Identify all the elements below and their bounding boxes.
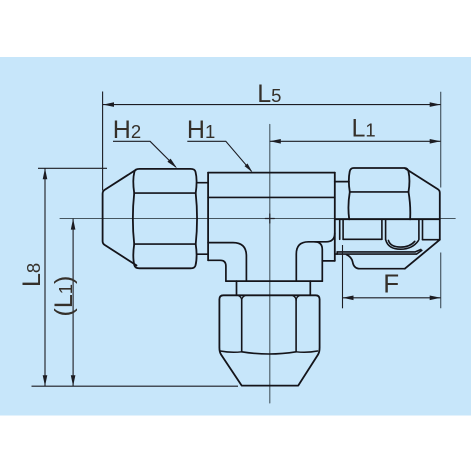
(L1) arrow top <box>71 219 76 230</box>
left nut middle band sides <box>133 193 197 244</box>
bottom nut facet bottom arc <box>242 352 296 354</box>
left cone cap <box>103 169 137 265</box>
section horizontal B <box>343 238 382 240</box>
L1 arrow left <box>270 139 281 144</box>
body bottom left outer step <box>208 260 226 281</box>
right nut middle band sides <box>348 192 410 219</box>
body bottom right extra fillet <box>315 242 323 281</box>
right cone: top slant, right edge, lower slant <box>405 168 440 269</box>
sleeve band bottom line <box>335 250 422 254</box>
bottom collar top line <box>226 280 322 282</box>
right nut top band <box>349 168 410 192</box>
bottom nut facet verticals <box>242 300 296 352</box>
L5 extension line left <box>102 92 104 191</box>
body top edge <box>208 172 335 174</box>
L8 arrow bottom <box>43 375 48 386</box>
body bottom right inner fillet <box>296 233 335 281</box>
svg-text:F: F <box>383 269 399 299</box>
section vertical pair 3 <box>419 219 423 239</box>
body bottom right step <box>322 260 335 262</box>
L8 arrow top <box>43 168 48 179</box>
blue panel <box>0 57 471 416</box>
body left edge <box>207 173 209 261</box>
L1 arrow right <box>430 139 441 144</box>
dimension lines and annotations <box>32 92 441 387</box>
L8 top extension line <box>38 167 107 169</box>
bottom extension line <box>32 385 239 387</box>
right cone inner horizontal <box>423 239 440 241</box>
L5 arrow right <box>430 102 441 107</box>
svg-text:H2: H2 <box>113 116 141 144</box>
horizontal centerline <box>60 218 455 220</box>
right cap lower outline <box>347 255 405 269</box>
right nut facet line <box>350 191 409 193</box>
left nut top band <box>133 169 196 193</box>
body right edge <box>334 173 336 261</box>
svg-text:L1: L1 <box>352 114 376 142</box>
F arrow right <box>430 296 441 301</box>
sleeve band top line <box>337 250 421 252</box>
bottom nut facet top hooks <box>239 296 300 301</box>
F extension line left <box>342 245 344 308</box>
left nut bottom band <box>133 244 196 268</box>
tube bowl inner arc <box>388 240 414 247</box>
left neck lines <box>197 183 208 255</box>
svg-text:L8: L8 <box>18 263 46 287</box>
center cross mark <box>265 214 274 223</box>
L5 dimension line <box>103 104 441 106</box>
body bottom left inner fillet <box>208 243 246 282</box>
L1 dimension line <box>270 140 441 142</box>
tube bowl outer arc <box>386 240 419 249</box>
H2 leader arrow <box>167 159 177 169</box>
svg-text:L5: L5 <box>257 80 281 108</box>
H1 leader line <box>187 141 251 171</box>
bottom nut side facet bottom curves <box>220 351 317 352</box>
(L1) arrow bottom <box>71 375 76 386</box>
section vertical pair 2 <box>382 219 386 240</box>
L8 dimension line <box>44 168 46 386</box>
bottom collar left vertical <box>236 281 238 295</box>
right shared extension line <box>440 92 442 308</box>
H1 leader arrow <box>245 164 253 173</box>
H2 leader line <box>113 141 176 167</box>
svg-text:(L1): (L1) <box>50 276 78 317</box>
body facet line <box>208 196 335 198</box>
right branch section top line <box>335 218 440 220</box>
vertical centerline <box>269 124 271 403</box>
right neck top line <box>335 181 349 183</box>
left nut facet lines <box>134 193 196 244</box>
F dimension line <box>343 297 441 299</box>
section vertical pair 1 <box>340 219 343 239</box>
bottom collar right vertical <box>309 281 311 295</box>
bottom nut and cone outline <box>219 295 319 385</box>
L5 arrow left <box>103 102 114 107</box>
svg-text:H1: H1 <box>187 116 215 144</box>
(L1) dimension line <box>72 219 74 387</box>
F arrow left <box>343 296 354 301</box>
sleeve band left step <box>336 252 338 254</box>
